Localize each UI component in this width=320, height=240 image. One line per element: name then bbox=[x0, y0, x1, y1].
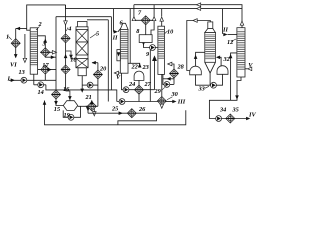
svg-text:2: 2 bbox=[38, 21, 42, 28]
svg-text:4: 4 bbox=[67, 26, 71, 33]
svg-text:20: 20 bbox=[99, 66, 107, 73]
svg-text:26: 26 bbox=[138, 106, 146, 113]
svg-text:29: 29 bbox=[154, 88, 162, 95]
svg-text:I: I bbox=[7, 76, 11, 83]
svg-text:21: 21 bbox=[85, 94, 92, 101]
svg-text:34: 34 bbox=[219, 107, 226, 114]
svg-text:14: 14 bbox=[38, 89, 44, 96]
svg-text:19: 19 bbox=[64, 112, 71, 119]
svg-text:12: 12 bbox=[227, 39, 233, 46]
svg-text:32: 32 bbox=[223, 56, 230, 63]
svg-text:35: 35 bbox=[232, 107, 239, 114]
svg-text:33: 33 bbox=[198, 86, 205, 93]
svg-text:23: 23 bbox=[142, 64, 149, 71]
svg-text:22: 22 bbox=[131, 64, 138, 71]
svg-text:II: II bbox=[222, 26, 228, 33]
svg-text:28: 28 bbox=[177, 64, 185, 71]
svg-text:25: 25 bbox=[111, 105, 118, 112]
svg-text:16: 16 bbox=[63, 86, 70, 93]
svg-text:3: 3 bbox=[42, 41, 46, 48]
svg-text:27: 27 bbox=[144, 81, 152, 88]
svg-text:10: 10 bbox=[167, 29, 174, 36]
svg-text:13: 13 bbox=[19, 69, 25, 76]
svg-text:15: 15 bbox=[54, 106, 60, 113]
svg-text:III: III bbox=[177, 98, 186, 105]
svg-text:VI: VI bbox=[10, 62, 17, 69]
svg-text:5: 5 bbox=[96, 31, 99, 38]
svg-text:17: 17 bbox=[42, 62, 49, 69]
svg-text:18: 18 bbox=[70, 57, 77, 64]
svg-text:24: 24 bbox=[128, 81, 135, 88]
svg-text:II: II bbox=[112, 35, 118, 42]
svg-text:IV: IV bbox=[248, 111, 256, 118]
